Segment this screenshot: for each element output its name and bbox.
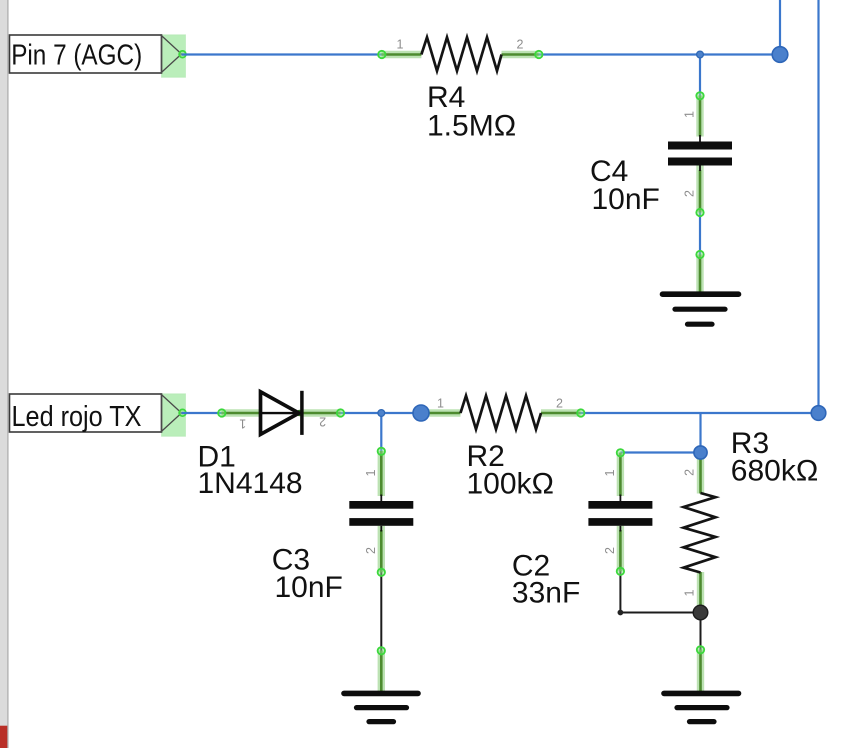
C4 pin number 2: [683, 190, 697, 197]
wire: Pin7 label to R4 pin1: [182, 53, 384, 55]
junction dot at (780,54.5): [772, 47, 788, 63]
C3 pin2 leg: [378, 526, 385, 576]
C3 ground leg: [378, 647, 385, 692]
wire: branch down to R3/C2 node: [699, 413, 701, 453]
C2 pin number 1: [603, 469, 617, 476]
C4 pin2 leg: [696, 166, 703, 217]
wire: C2 to R3 bottom node (black): [620, 612, 700, 614]
wire: C2 pin1 to R3 pin2 horizontal: [620, 451, 700, 453]
junction node at (700,54.5): [697, 51, 704, 58]
svg-text:1: 1: [682, 589, 696, 596]
wire: branch down to C3: [380, 413, 382, 452]
svg-text:2: 2: [603, 547, 617, 554]
capacitor C3: [349, 501, 413, 526]
C2 pin number 2: [603, 547, 617, 554]
junction dot at (700.5,612.5) black: [693, 605, 708, 620]
diode D1: [261, 391, 302, 435]
C4 value label: [590, 155, 660, 216]
C4 pin number 1: [683, 111, 697, 118]
svg-text:33nF: 33nF: [512, 576, 580, 609]
svg-text:1: 1: [397, 38, 404, 52]
R4 pin1 leg: [378, 51, 421, 58]
C2 pin1 leg: [617, 449, 624, 501]
R2 pin number 1: [437, 397, 444, 411]
C2 pin2 leg: [617, 526, 624, 575]
svg-text:2: 2: [517, 38, 524, 52]
svg-text:100kΩ: 100kΩ: [467, 467, 554, 500]
C3 pin1 leg: [378, 448, 385, 501]
R4 pin number 1: [397, 38, 404, 52]
R3 pin number 1: [682, 589, 696, 596]
svg-text:1: 1: [603, 469, 617, 476]
C3 pin number 2: [364, 547, 378, 554]
net label flag "Pin 7 (AGC)": [10, 35, 186, 78]
svg-text:10nF: 10nF: [275, 571, 343, 604]
wire: D1 cathode to R2 node: [340, 412, 421, 414]
D1 cathode leg: [296, 409, 344, 416]
capacitor C4: [668, 142, 732, 166]
svg-text:2: 2: [556, 397, 563, 411]
wire: C2 pin2 down (black): [619, 571, 621, 613]
svg-text:1: 1: [239, 417, 246, 431]
left gutter bar: [0, 0, 9, 748]
D1 pin number 1: [239, 417, 246, 431]
R4 pin2 leg: [502, 51, 543, 58]
resistor R4: [421, 37, 501, 71]
R2 pin2 leg: [541, 409, 585, 416]
ground symbol (C3): [344, 693, 418, 721]
svg-text:Pin 7 (AGC): Pin 7 (AGC): [11, 40, 142, 72]
svg-text:2: 2: [319, 415, 326, 429]
resistor R2: [461, 396, 542, 430]
R3 pin2 leg: [697, 453, 704, 494]
svg-text:10nF: 10nF: [592, 183, 660, 216]
svg-text:2: 2: [683, 469, 697, 476]
svg-text:1: 1: [683, 111, 697, 118]
C3 pin number 1: [364, 469, 378, 476]
junction dot at (818.5,413): [811, 406, 826, 421]
C4 pin1 leg: [696, 92, 703, 141]
ground symbol (R3/C2): [664, 693, 739, 721]
red gutter marker: [0, 726, 7, 748]
R3 value label: [731, 427, 818, 488]
R3 pin number 2: [683, 469, 697, 476]
junction node at (381.3,413): [378, 410, 385, 417]
svg-text:1.5MΩ: 1.5MΩ: [427, 110, 516, 143]
R3 ground leg: [697, 646, 704, 692]
svg-text:2: 2: [364, 547, 378, 554]
wire: R2 pin2 to right bus: [580, 412, 819, 414]
R3 pin1 leg: [697, 572, 704, 613]
resistor R3: [684, 493, 716, 573]
wire: vertical at x=780 to top edge: [779, 0, 781, 55]
D1 anode leg: [218, 409, 260, 416]
capacitor C2: [588, 501, 652, 526]
svg-text:1: 1: [437, 397, 444, 411]
svg-text:1N4148: 1N4148: [198, 467, 303, 500]
wire: C3 pin2 to ground (black): [380, 572, 382, 651]
wire: R4 pin2 to top-right junction: [538, 53, 780, 55]
svg-text:Led rojo TX: Led rojo TX: [12, 401, 142, 433]
D1 pin number 2: [319, 415, 326, 429]
wire: Led rojo label to D1 anode: [182, 412, 223, 414]
R2 pin1 leg: [424, 409, 461, 416]
svg-text:2: 2: [683, 190, 697, 197]
C2 value label: [512, 550, 580, 610]
R2 pin number 2: [556, 397, 563, 411]
wire: right vertical bus x=818.5: [817, 0, 819, 413]
net label flag "Led rojo TX": [10, 394, 186, 437]
corner node (C2 bottom wire): [618, 610, 624, 616]
R4 value label: [427, 81, 516, 143]
C4 ground leg: [696, 251, 703, 293]
D1 value label: [198, 441, 303, 501]
svg-text:1: 1: [364, 469, 378, 476]
R4 pin number 2: [517, 38, 524, 52]
R2 value label: [467, 440, 554, 500]
C3 value label: [272, 544, 343, 604]
junction dot at (421,413): [413, 405, 429, 421]
svg-text:680kΩ: 680kΩ: [731, 455, 818, 488]
wire: R3 bottom node to ground (black): [700, 613, 702, 651]
wire: branch down to C4 pin1: [699, 55, 701, 97]
ground symbol (C4): [663, 294, 739, 324]
junction dot at (700.5,452.5): [694, 446, 707, 459]
wire: C4 pin2 to ground: [699, 212, 701, 255]
